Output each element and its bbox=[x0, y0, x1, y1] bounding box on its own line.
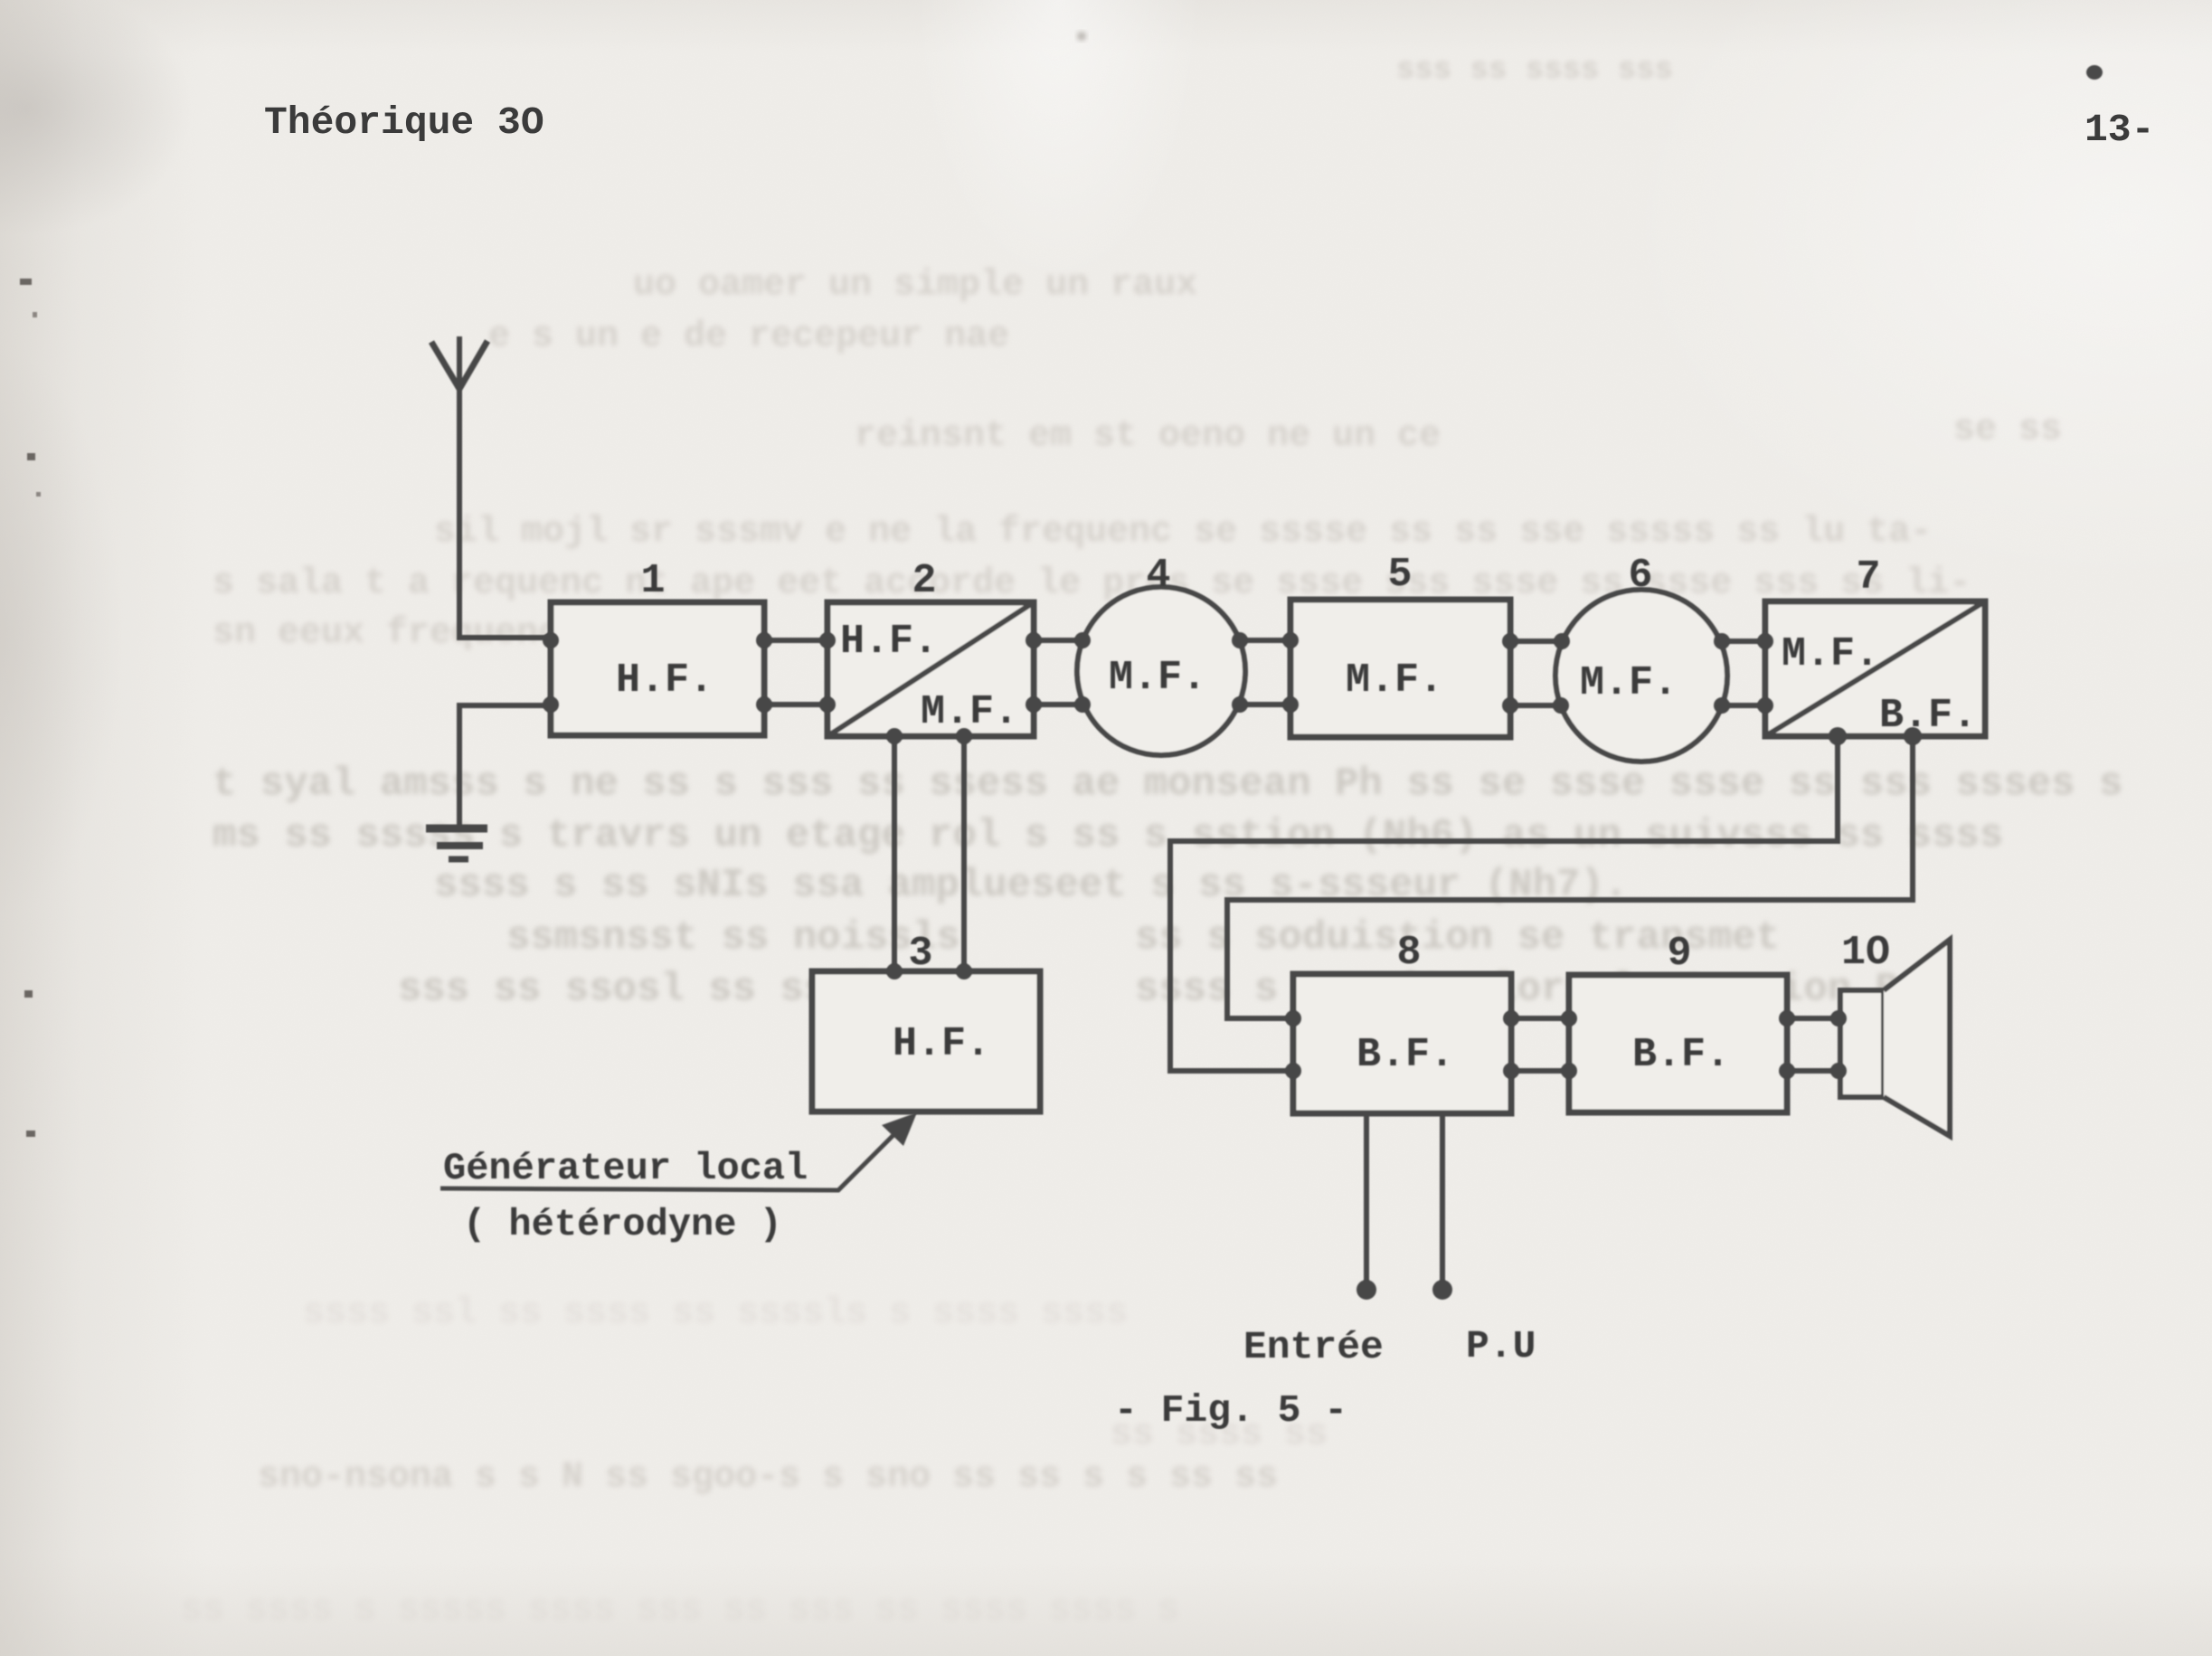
P.U terminal dot bbox=[1432, 1280, 1452, 1300]
svg-text:H.F.: H.F. bbox=[893, 1021, 990, 1067]
leader line of Générateur local label bbox=[440, 1122, 906, 1190]
junction dots block 9 / speaker coupling bbox=[1779, 1010, 1847, 1079]
block 8 B.F. bbox=[1293, 974, 1511, 1113]
svg-text:B.F.: B.F. bbox=[1879, 693, 1977, 739]
coupling wires block 8 to block 9 bbox=[1511, 1018, 1569, 1071]
entrée terminal wire bbox=[1364, 1113, 1369, 1282]
coupling wires block 9 to speaker 10 bbox=[1787, 1018, 1841, 1071]
margin speck 5 bbox=[24, 990, 33, 998]
margin speck 3 bbox=[27, 453, 35, 460]
junction dots block 1 / block 2 coupling bbox=[756, 632, 836, 713]
svg-text:M.F.: M.F. bbox=[1782, 631, 1879, 677]
ghost bleed-through text band 4 bbox=[398, 915, 1947, 1012]
svg-text:sno-nsona s s N ss sgoo-s s: sno-nsona s s N ss sgoo-s s sno ss ss s … bbox=[258, 1457, 1278, 1498]
svg-text:B.F.: B.F. bbox=[1632, 1032, 1730, 1078]
block 5 M.F. bbox=[1290, 600, 1510, 737]
svg-text:( hétérodyne ): ( hétérodyne ) bbox=[463, 1203, 782, 1246]
ink speck above page number bbox=[2086, 65, 2103, 80]
block 3 local oscillator H.F. bbox=[812, 971, 1040, 1112]
ghost bleed-through text band 5 bbox=[181, 1293, 1328, 1631]
antenna bbox=[431, 336, 487, 640]
wire block 2 to block 3 (right) bbox=[961, 736, 967, 971]
svg-text:ssss s s ssit alors la tension: ssss s s ssit alors la tension B F bbox=[1135, 967, 1947, 1012]
svg-text:5: 5 bbox=[1387, 552, 1412, 598]
svg-text:3: 3 bbox=[908, 931, 932, 977]
margin speck 1 bbox=[20, 279, 32, 285]
svg-text:ss ssss s sssss ssss sss ss ss: ss ssss s sssss ssss sss ss sss ss ssss … bbox=[181, 1590, 1179, 1631]
svg-text:s sala t a requenc nt ape: s sala t a requenc nt ape eet accorde le… bbox=[213, 563, 1971, 604]
junction dots block 7 bottom bbox=[1829, 727, 1922, 745]
svg-text:se ss: se ss bbox=[1953, 410, 2062, 450]
junction dots block 5 / circle 6 coupling bbox=[1502, 633, 1570, 714]
svg-text:H.F.: H.F. bbox=[616, 658, 714, 704]
block 1 H.F. bbox=[551, 602, 764, 735]
svg-text:6: 6 bbox=[1628, 553, 1652, 599]
svg-text:e s un e de recepeur nae: e s un e de recepeur nae bbox=[488, 317, 1009, 357]
svg-text:sss ss ssss sss: sss ss ssss sss bbox=[1396, 53, 1673, 88]
circle 4 M.F. stage bbox=[1077, 587, 1245, 755]
svg-text:1: 1 bbox=[640, 558, 665, 604]
svg-text:13-: 13- bbox=[2084, 108, 2154, 152]
svg-text:- Fig. 5 -: - Fig. 5 - bbox=[1114, 1388, 1347, 1433]
svg-text:Théorique 3O: Théorique 3O bbox=[264, 100, 544, 145]
svg-text:8: 8 bbox=[1396, 930, 1421, 976]
svg-text:uo oamer un simple un raux: uo oamer un simple un raux bbox=[633, 265, 1197, 306]
junction dots block 2 bottom bbox=[886, 728, 972, 744]
ghost bleed-through text band 1 bbox=[488, 265, 2062, 457]
block 9 B.F. bbox=[1569, 975, 1787, 1112]
wire block 7 to block 8 (outer feedback path) bbox=[1170, 736, 1838, 1071]
junction dots block 8 left bbox=[1285, 1010, 1301, 1079]
svg-text:M.F.: M.F. bbox=[921, 689, 1018, 735]
svg-text:9: 9 bbox=[1667, 931, 1691, 977]
svg-text:M.F.: M.F. bbox=[1109, 655, 1206, 701]
circle 6 M.F. stage bbox=[1555, 590, 1727, 762]
block 2 H.F./M.F. converter bbox=[827, 602, 1034, 736]
ghost bleed-through text band 3 bbox=[213, 762, 2122, 908]
margin speck 2 bbox=[33, 312, 37, 317]
margin speck 6 bbox=[26, 1131, 35, 1137]
margin speck 4 bbox=[36, 492, 41, 497]
coupling wires block 5 to circle 6 bbox=[1510, 641, 1562, 705]
junction dots block 3 top bbox=[886, 963, 972, 979]
junction dots block 8 / block 9 coupling bbox=[1503, 1010, 1577, 1079]
coupling wires circle 4 to block 5 bbox=[1240, 640, 1290, 705]
faint dash marks top edge bbox=[1396, 53, 1673, 88]
ground bbox=[426, 828, 487, 859]
svg-text:P.U: P.U bbox=[1466, 1324, 1536, 1368]
svg-text:Entrée: Entrée bbox=[1243, 1325, 1384, 1369]
wire block 2 to block 3 (left) bbox=[892, 736, 897, 971]
svg-text:2: 2 bbox=[912, 558, 936, 604]
svg-text:reinsnt em st oeno ne un ce: reinsnt em st oeno ne un ce bbox=[855, 416, 1441, 457]
junction dots circle 6 / block 7 coupling bbox=[1714, 633, 1773, 714]
wire block 7 to block 8 (inner path) bbox=[1227, 736, 1913, 1018]
svg-text:ms ss sssss s travrs un etage: ms ss sssss s travrs un etage rol s ss s… bbox=[213, 813, 2003, 858]
svg-text:H.F.: H.F. bbox=[840, 619, 938, 665]
svg-text:ssss ssl ss ssss ss ssssls s s: ssss ssl ss ssss ss ssssls s ssss ssss bbox=[303, 1293, 1128, 1334]
svg-text:sil mojl sr sssmv e ne la f: sil mojl sr sssmv e ne la frequenc se ss… bbox=[434, 512, 1932, 553]
svg-text:M.F.: M.F. bbox=[1346, 658, 1443, 704]
svg-text:4: 4 bbox=[1146, 553, 1170, 599]
tiny speck top center bbox=[1077, 32, 1086, 41]
coupling wires block 1 to block 2 bbox=[764, 640, 827, 705]
speaker 10 bbox=[1840, 940, 1950, 1136]
arrowhead of Générateur local leader bbox=[882, 1112, 917, 1146]
junction dots block 2 / circle 4 coupling bbox=[1026, 632, 1091, 713]
entrée terminal dot bbox=[1357, 1280, 1376, 1300]
wire antenna to block 1 bbox=[457, 635, 551, 640]
wire block 1 to ground bbox=[459, 705, 551, 828]
svg-text:sss ss ssosl ss ssol: sss ss ssosl ss ssol bbox=[398, 967, 875, 1012]
ghost bleed-through text band 2 bbox=[213, 512, 1971, 654]
svg-text:B.F.: B.F. bbox=[1357, 1032, 1454, 1078]
block 7 M.F./B.F. detector bbox=[1765, 601, 1985, 736]
svg-text:Générateur local: Générateur local bbox=[443, 1147, 808, 1190]
svg-text:7: 7 bbox=[1856, 554, 1880, 601]
junction dots circle 4 / block 5 coupling bbox=[1232, 632, 1299, 713]
junction dots block 1 left bbox=[543, 632, 559, 713]
coupling wires circle 6 to block 7 bbox=[1722, 641, 1765, 705]
svg-text:1O: 1O bbox=[1841, 930, 1890, 976]
svg-text:M.F.: M.F. bbox=[1580, 660, 1678, 706]
P.U terminal wire bbox=[1440, 1113, 1445, 1282]
coupling wires block 2 to circle 4 bbox=[1034, 640, 1082, 705]
